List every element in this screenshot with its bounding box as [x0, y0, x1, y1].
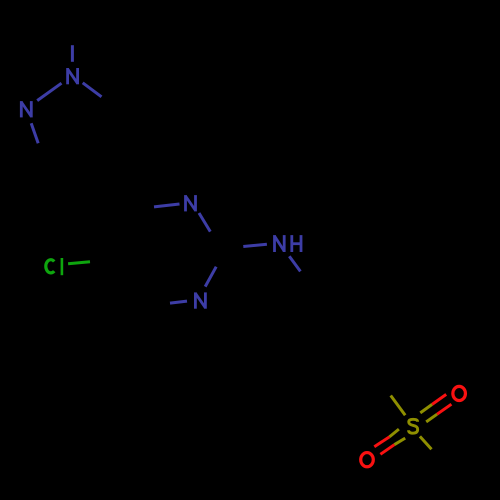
atom label N pyrazole N2	[21, 101, 31, 117]
bond N1(pyrimidine)-C4 (blue half)	[154, 204, 180, 207]
bond S=O top-right, line B yellow half	[426, 414, 437, 422]
bond S=O top-right, line A yellow half	[420, 404, 432, 413]
bond NH-C1(phenyl) (blue half)	[289, 256, 300, 271]
atom label Cl : C glyph	[46, 260, 54, 273]
bond N1(pyrazole)-C5(pyrazole) (blue half)	[83, 83, 102, 97]
atom label O top-right	[453, 386, 466, 400]
atom label N pyrimidine N1	[186, 195, 196, 211]
atom label O bottom-left	[361, 453, 374, 467]
atom label N pyrimidine N3	[195, 292, 205, 308]
bond N3(pyrimidine)-C6 (blue half)	[170, 301, 187, 303]
atom label N pyrazole N1	[68, 68, 78, 84]
atom label S	[409, 419, 418, 433]
bond N1(pyrimidine)-C2 (blue half)	[199, 213, 210, 232]
bond N1(pyrazole)-CH3 (blue half)	[71, 45, 74, 62]
bond N3(pyrimidine)-C2 (blue half)	[205, 267, 216, 287]
bond S-CH3 (yellow half)	[420, 436, 432, 449]
bond S=O top-right, line A red half	[432, 394, 446, 404]
atom label Cl : l glyph	[61, 258, 64, 275]
bond Cl-C5(pyrimidine) (green half)	[68, 262, 90, 264]
bond N1(pyrazole)-N2(pyrazole)	[37, 83, 61, 100]
bond S=O bottom-left, line B red half	[380, 445, 394, 455]
bond S=O bottom-left, line A red half	[374, 437, 389, 447]
bond C2-NH (blue half)	[243, 244, 267, 246]
bond S=O bottom-left, line B yellow half	[394, 438, 405, 445]
atom label NH : H glyph	[292, 235, 301, 252]
bond S=O bottom-left, line A yellow half	[389, 429, 399, 437]
bond S=O top-right, line B red half	[437, 404, 451, 414]
atom label NH : N glyph	[275, 235, 285, 252]
bond S-C4(phenyl) (yellow half)	[391, 396, 406, 416]
bond N2(pyrazole)-C3(pyrazole) (blue half)	[31, 123, 38, 143]
